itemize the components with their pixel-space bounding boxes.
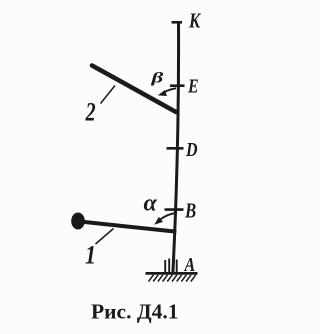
angle alpha arc arrow (154, 213, 177, 225)
tick K (172, 21, 183, 24)
tick B (165, 208, 184, 211)
svg-text:Рис. Д4.1: Рис. Д4.1 (91, 300, 178, 324)
svg-text:β: β (150, 70, 163, 86)
clamp tick right (176, 260, 178, 273)
rod 2 (92, 66, 176, 113)
clamp tick left 1 (164, 260, 166, 272)
tick E (170, 84, 185, 87)
svg-text:α: α (144, 191, 158, 217)
svg-text:D: D (185, 138, 197, 160)
angle beta arc arrow (158, 88, 176, 96)
svg-text:2: 2 (85, 98, 96, 127)
ground hatching (149, 275, 196, 282)
svg-text:1: 1 (85, 242, 96, 270)
rod 1 (80, 222, 175, 232)
pointer line of label 2 (101, 86, 116, 104)
rod AK (vertical bar) (173, 21, 179, 273)
ground line at A (146, 272, 198, 275)
pointer line of label 1 (96, 229, 114, 245)
svg-text:A: A (184, 253, 196, 275)
svg-text:E: E (187, 75, 199, 97)
tick D (167, 147, 184, 150)
svg-text:B: B (184, 200, 196, 223)
ball (weight on rod 1) (71, 213, 85, 230)
clamp tick left 2 (168, 259, 170, 273)
svg-text:K: K (188, 9, 201, 32)
